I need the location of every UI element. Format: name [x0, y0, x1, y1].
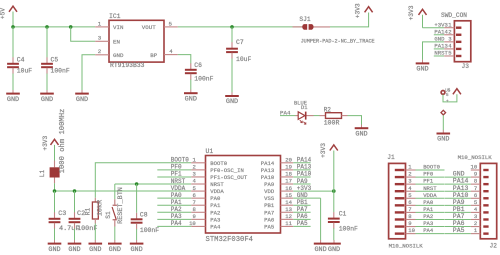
- svg-text:GND: GND: [453, 171, 465, 178]
- svg-text:STM32F030F4: STM32F030F4: [206, 236, 253, 244]
- net BOOT0 at J1 pin 1: [408, 164, 444, 171]
- capacitor C4: [7, 27, 32, 90]
- ground under C7: [225, 92, 239, 106]
- LED D1 BLUE: [294, 101, 314, 125]
- svg-text:100nF: 100nF: [77, 225, 97, 233]
- svg-text:100nF: 100nF: [51, 67, 70, 74]
- svg-text:PF0: PF0: [423, 171, 434, 178]
- capacitor C2: [69, 191, 98, 240]
- svg-text:BP: BP: [150, 52, 157, 59]
- ground under SWD: [416, 60, 430, 74]
- svg-text:+3V3: +3V3: [42, 135, 49, 150]
- svg-text:U1: U1: [206, 148, 214, 155]
- svg-text:PA0: PA0: [171, 192, 182, 199]
- svg-text:GND: GND: [185, 95, 197, 103]
- junction at C4: [11, 25, 15, 29]
- capacitor C5: [41, 27, 70, 90]
- net PA10 at J2 pin 6: [445, 192, 477, 199]
- svg-text:VOUT: VOUT: [142, 24, 156, 31]
- svg-text:18: 18: [285, 171, 292, 178]
- ground under C6: [184, 90, 198, 104]
- net label PA14 at U1 pin 20: [293, 157, 311, 164]
- svg-text:J3: J3: [462, 63, 470, 70]
- net label GND at U1 pin 15: [293, 192, 320, 199]
- wire +3V3 riser: [333, 151, 335, 192]
- net label PA3 at U1 pin 9: [157, 213, 191, 220]
- svg-text:RT9193B33: RT9193B33: [110, 62, 145, 69]
- svg-text:PA14: PA14: [261, 160, 275, 167]
- net label PF1 at U1 pin 3: [157, 171, 191, 178]
- svg-text:PF1-OSC_OUT: PF1-OSC_OUT: [210, 174, 248, 181]
- svg-text:PB1: PB1: [264, 202, 275, 209]
- svg-text:PA9: PA9: [297, 178, 308, 185]
- resistor R1 pulldown: [85, 198, 105, 241]
- svg-text:L1: L1: [39, 170, 46, 178]
- svg-text:PA13: PA13: [297, 164, 312, 171]
- svg-text:GND: GND: [434, 36, 445, 43]
- supply +3V3 at U1: [320, 143, 338, 158]
- svg-text:1000 ohm 100MHz: 1000 ohm 100MHz: [59, 109, 67, 174]
- svg-text:11: 11: [285, 220, 292, 227]
- net label NRST at U1 pin 4: [171, 178, 186, 185]
- svg-text:PA0: PA0: [423, 199, 434, 206]
- net PA13 pin4: [434, 43, 452, 50]
- capacitor C1: [328, 191, 358, 240]
- connector J3 SWD_CON: [441, 12, 471, 70]
- svg-text:6: 6: [474, 192, 477, 199]
- svg-text:7: 7: [192, 199, 195, 206]
- svg-text:VDDA: VDDA: [171, 185, 186, 192]
- svg-text:PA2: PA2: [210, 209, 220, 216]
- junction at EN tap: [69, 25, 73, 29]
- svg-text:17: 17: [285, 178, 292, 185]
- svg-text:6: 6: [192, 192, 195, 199]
- svg-text:+: +: [446, 99, 449, 104]
- svg-text:9: 9: [408, 220, 411, 227]
- svg-text:VDDA: VDDA: [210, 188, 224, 195]
- op-amp IC1 regulator RT9193B33: [95, 13, 178, 69]
- svg-text:100nF: 100nF: [194, 76, 213, 83]
- net label PA10 at U1 pin 18: [293, 171, 311, 178]
- junction +3V3/C1: [332, 189, 336, 193]
- ground under via: [437, 130, 451, 144]
- svg-text:PA7: PA7: [297, 206, 308, 213]
- net label PB1 at U1 pin 14: [293, 199, 310, 206]
- svg-text:PA4: PA4: [210, 223, 221, 230]
- connector J2 M10_NOSILK: [458, 154, 498, 250]
- svg-text:PA13: PA13: [261, 167, 274, 174]
- svg-text:PA6: PA6: [264, 216, 274, 223]
- svg-text:10uF: 10uF: [236, 56, 252, 63]
- net PB1 at J2 pin 4: [445, 206, 478, 213]
- svg-text:GND: GND: [68, 246, 80, 254]
- net label PA1 at U1 pin 7: [157, 199, 191, 206]
- svg-text:C6: C6: [194, 62, 202, 69]
- wire VDDA bus: [55, 190, 192, 192]
- net label PA7 at U1 pin 13: [293, 206, 310, 213]
- svg-text:PB1: PB1: [297, 199, 308, 206]
- svg-text:7: 7: [408, 206, 411, 213]
- net label PA5 at U1 pin 11: [293, 220, 310, 227]
- net PA2 at J1 pin 8: [408, 213, 444, 220]
- supply +3V3 at SWD: [408, 5, 427, 27]
- svg-text:GND: GND: [416, 66, 428, 74]
- svg-text:4: 4: [169, 48, 173, 55]
- svg-text:RESET_BTN: RESET_BTN: [117, 187, 125, 224]
- solder jumper SJ1: [293, 16, 375, 44]
- pin 10 label at J2: [470, 164, 477, 171]
- svg-text:2: 2: [192, 164, 195, 171]
- svg-text:PA5: PA5: [264, 223, 274, 230]
- capacitor C7: [226, 27, 251, 93]
- svg-text:10uF: 10uF: [17, 67, 33, 74]
- wire R2 to ground: [348, 116, 362, 125]
- junction C8 on NRST: [135, 182, 139, 186]
- svg-text:VSS: VSS: [264, 195, 275, 202]
- svg-text:JUMPER-PAD-2-NC_BY_TRACE: JUMPER-PAD-2-NC_BY_TRACE: [301, 38, 375, 44]
- svg-text:EN: EN: [113, 39, 120, 46]
- wire +3V3 to J3 pin 1: [423, 27, 445, 29]
- resistor R2: [320, 107, 348, 127]
- svg-text:NRST: NRST: [423, 185, 437, 192]
- svg-text:GND: GND: [130, 246, 142, 254]
- svg-text:VDDA: VDDA: [423, 192, 437, 199]
- junction at C5: [45, 25, 49, 29]
- net label PA9 at U1 pin 17: [293, 178, 310, 185]
- svg-text:NRST: NRST: [171, 178, 186, 185]
- svg-text:GND: GND: [41, 96, 53, 104]
- svg-text:PA3: PA3: [210, 216, 220, 223]
- net GND at J2 pin 9: [445, 171, 477, 178]
- svg-text:PA10: PA10: [297, 171, 312, 178]
- connector J1 M10_NOSILK: [387, 154, 423, 250]
- svg-text:GND: GND: [109, 246, 121, 254]
- supply +3V3 at SJ1: [355, 3, 373, 18]
- svg-text:9: 9: [192, 213, 195, 220]
- svg-text:100nF: 100nF: [339, 225, 358, 232]
- net label PF0 at U1 pin 2: [157, 164, 191, 171]
- svg-text:GND: GND: [355, 130, 367, 138]
- capacitor C3: [49, 191, 80, 240]
- svg-text:R1: R1: [85, 208, 92, 216]
- svg-text:5: 5: [474, 199, 477, 206]
- wire NRST line: [115, 183, 191, 185]
- svg-text:13: 13: [285, 206, 292, 213]
- junction L1/C3: [53, 189, 57, 193]
- svg-text:BOOT0: BOOT0: [423, 164, 440, 171]
- wire SJ1 to +3V3: [330, 13, 369, 27]
- svg-text:S1: S1: [105, 211, 112, 219]
- net label +3V3 at U1 pin 16: [293, 185, 334, 192]
- svg-text:2: 2: [408, 171, 411, 178]
- net PA1 at J1 pin 7: [408, 206, 444, 213]
- svg-text:8: 8: [474, 178, 477, 185]
- svg-text:U$: U$: [445, 89, 451, 94]
- svg-text:+3V3: +3V3: [320, 143, 327, 158]
- junction at C7: [230, 25, 234, 29]
- net PA5 at J2 pin 1: [445, 227, 478, 234]
- svg-text:15: 15: [285, 192, 292, 199]
- svg-text:+3V3: +3V3: [297, 185, 312, 192]
- svg-text:+3V3: +3V3: [408, 5, 415, 20]
- svg-text:PA1: PA1: [210, 202, 221, 209]
- svg-text:GND: GND: [7, 96, 19, 104]
- net PA14 pin2: [434, 29, 452, 36]
- net PA4 at J1 pin 10: [408, 227, 444, 234]
- svg-text:PA14: PA14: [297, 157, 312, 164]
- svg-text:M10_NOSILK: M10_NOSILK: [389, 243, 424, 250]
- wire VSS to ground: [320, 198, 322, 240]
- svg-text:PA4: PA4: [423, 227, 434, 234]
- wire U$5 to +3V3: [443, 94, 457, 102]
- wire IC1 GND pin to ground: [82, 55, 95, 90]
- svg-text:VDD: VDD: [264, 188, 275, 195]
- svg-text:PF1: PF1: [423, 178, 434, 185]
- svg-text:5: 5: [408, 192, 411, 199]
- ground under IC1: [75, 90, 89, 104]
- svg-text:PA3: PA3: [423, 220, 433, 227]
- svg-text:GND: GND: [297, 192, 308, 199]
- svg-text:GND: GND: [113, 52, 124, 59]
- svg-text:16: 16: [285, 185, 292, 192]
- net label VDDA at U1 pin 5: [171, 185, 186, 192]
- ground under C3: [48, 240, 62, 254]
- ground under C2: [68, 240, 82, 254]
- svg-text:3: 3: [474, 213, 477, 220]
- wire VOUT rail to SJ1: [178, 26, 303, 28]
- svg-text:8: 8: [192, 206, 195, 213]
- ground under R2: [355, 125, 369, 139]
- svg-text:+3V3: +3V3: [355, 3, 362, 18]
- net label PA4 at U1 pin 10: [157, 220, 191, 227]
- ground under C5: [40, 90, 54, 104]
- net PA0 at J1 pin 6: [408, 199, 444, 206]
- svg-text:C1: C1: [339, 211, 347, 218]
- svg-text:C4: C4: [17, 56, 25, 63]
- svg-text:PA9: PA9: [453, 199, 465, 206]
- svg-text:2: 2: [98, 48, 102, 55]
- svg-text:C3: C3: [58, 210, 66, 218]
- svg-text:SJ1: SJ1: [299, 16, 310, 23]
- net PA9 at J2 pin 5: [445, 199, 477, 206]
- svg-text:3: 3: [192, 171, 195, 178]
- svg-text:BOOT0: BOOT0: [210, 160, 227, 167]
- svg-text:C7: C7: [236, 39, 244, 46]
- ground under S1: [108, 240, 122, 254]
- svg-text:3: 3: [98, 35, 102, 42]
- svg-text:D1: D1: [301, 105, 307, 111]
- net PA3 at J1 pin 9: [408, 220, 444, 227]
- svg-text:10: 10: [408, 227, 415, 234]
- IC U1 STM32F030F4: [189, 148, 293, 244]
- net NRST at J1 pin 4: [408, 185, 444, 192]
- svg-text:7: 7: [474, 185, 477, 192]
- svg-text:PA2: PA2: [171, 206, 182, 213]
- net label PA0 at U1 pin 6: [157, 192, 191, 199]
- svg-text:PA3: PA3: [171, 213, 182, 220]
- svg-text:2: 2: [474, 220, 477, 227]
- svg-text:PB1: PB1: [453, 206, 465, 213]
- net label +3V3 pin1: [434, 21, 452, 28]
- via to ground: [441, 110, 446, 130]
- svg-text:6: 6: [408, 199, 411, 206]
- svg-text:100nF: 100nF: [140, 227, 159, 234]
- svg-text:C8: C8: [140, 212, 148, 219]
- svg-text:GND: GND: [314, 246, 326, 254]
- supply +5V: [0, 6, 17, 27]
- svg-text:10kR: 10kR: [96, 200, 104, 216]
- svg-text:GND: GND: [328, 246, 340, 254]
- svg-text:PA7: PA7: [264, 209, 274, 216]
- svg-text:8: 8: [408, 213, 411, 220]
- svg-text:GND: GND: [76, 96, 88, 104]
- svg-text:PF1: PF1: [171, 171, 182, 178]
- svg-text:GND: GND: [48, 246, 60, 254]
- ground under C4: [6, 90, 20, 104]
- svg-text:3: 3: [408, 178, 411, 185]
- svg-text:9: 9: [474, 171, 477, 178]
- svg-text:IC1: IC1: [109, 13, 121, 20]
- supply +3V3 small arrow: [446, 89, 461, 105]
- svg-text:GND: GND: [89, 246, 101, 254]
- svg-text:VIN: VIN: [113, 24, 124, 31]
- wire BOOT0 to R1: [95, 163, 191, 198]
- net PA7 at J2 pin 3: [445, 213, 477, 220]
- junction C2: [73, 189, 77, 193]
- svg-text:GND: GND: [226, 98, 238, 106]
- svg-text:J1: J1: [387, 154, 395, 161]
- svg-text:PA10: PA10: [453, 192, 469, 199]
- svg-text:PA6: PA6: [297, 213, 308, 220]
- net GND pin3: [423, 36, 452, 60]
- net PA14 at J2 pin 8: [445, 178, 477, 185]
- net label PA13 at U1 pin 19: [293, 164, 311, 171]
- capacitor C6: [185, 62, 214, 90]
- svg-text:PA0: PA0: [210, 195, 221, 202]
- net label PA2 at U1 pin 8: [157, 206, 191, 213]
- ground under R1: [89, 240, 103, 254]
- net label PA4 to LED: [280, 109, 296, 116]
- ground under VSS: [314, 240, 328, 254]
- net PA13 at J2 pin 7: [445, 185, 477, 192]
- svg-text:PA10: PA10: [261, 174, 275, 181]
- ground under C8: [130, 240, 144, 254]
- net label BOOT0 at U1 pin 1: [171, 157, 189, 164]
- wire BP to C6: [178, 55, 191, 64]
- net label PA6 at U1 pin 12: [293, 213, 310, 220]
- svg-text:GND: GND: [437, 136, 449, 144]
- svg-text:BOOT0: BOOT0: [171, 157, 189, 164]
- inductor L1 ferrite bead: [39, 109, 67, 191]
- wire +5V rail: [13, 26, 95, 28]
- svg-text:5: 5: [192, 185, 195, 192]
- wire EN tie to rail: [71, 27, 96, 41]
- svg-text:PA1: PA1: [171, 199, 182, 206]
- svg-text:PA9: PA9: [264, 181, 274, 188]
- supply +3V3 at L1: [42, 135, 59, 150]
- svg-text:19: 19: [285, 164, 292, 171]
- svg-text:PA6: PA6: [453, 220, 465, 227]
- net PF0 at J1 pin 2: [408, 171, 444, 178]
- ground under C1: [327, 240, 341, 254]
- svg-text:PF0-OSC_IN: PF0-OSC_IN: [210, 167, 244, 174]
- net NRST pin5: [434, 50, 452, 57]
- svg-text:10: 10: [470, 164, 477, 171]
- svg-text:SWD_CON: SWD_CON: [441, 12, 467, 19]
- svg-text:PA13: PA13: [453, 185, 469, 192]
- svg-text:C5: C5: [51, 56, 59, 63]
- svg-text:14: 14: [285, 199, 292, 206]
- svg-text:20: 20: [285, 157, 292, 164]
- svg-text:1: 1: [98, 20, 102, 27]
- svg-text:5: 5: [169, 20, 173, 27]
- svg-text:R2: R2: [324, 107, 332, 114]
- svg-text:12: 12: [285, 213, 292, 220]
- svg-text:100R: 100R: [324, 120, 340, 127]
- net VDDA at J1 pin 5: [408, 192, 444, 199]
- capacitor C8: [131, 184, 160, 240]
- svg-text:PA5: PA5: [453, 227, 465, 234]
- svg-text:NRST: NRST: [210, 181, 224, 188]
- wire LED to R2: [314, 115, 320, 117]
- svg-text:PF0: PF0: [171, 164, 182, 171]
- svg-text:PA1: PA1: [423, 206, 434, 213]
- svg-text:PA5: PA5: [297, 220, 308, 227]
- svg-text:PA14: PA14: [453, 178, 469, 185]
- switch S1 RESET_BTN: [105, 184, 125, 240]
- net PF1 at J1 pin 3: [408, 178, 444, 185]
- svg-text:PA2: PA2: [423, 213, 433, 220]
- svg-text:+5V: +5V: [0, 8, 7, 19]
- svg-text:J2: J2: [490, 243, 498, 250]
- svg-text:PA7: PA7: [453, 213, 465, 220]
- svg-text:PA4: PA4: [171, 220, 182, 227]
- testpoint U$5 pad: [441, 89, 451, 98]
- net PA6 at J2 pin 2: [445, 220, 477, 227]
- svg-text:M10_NOSILK: M10_NOSILK: [458, 154, 493, 161]
